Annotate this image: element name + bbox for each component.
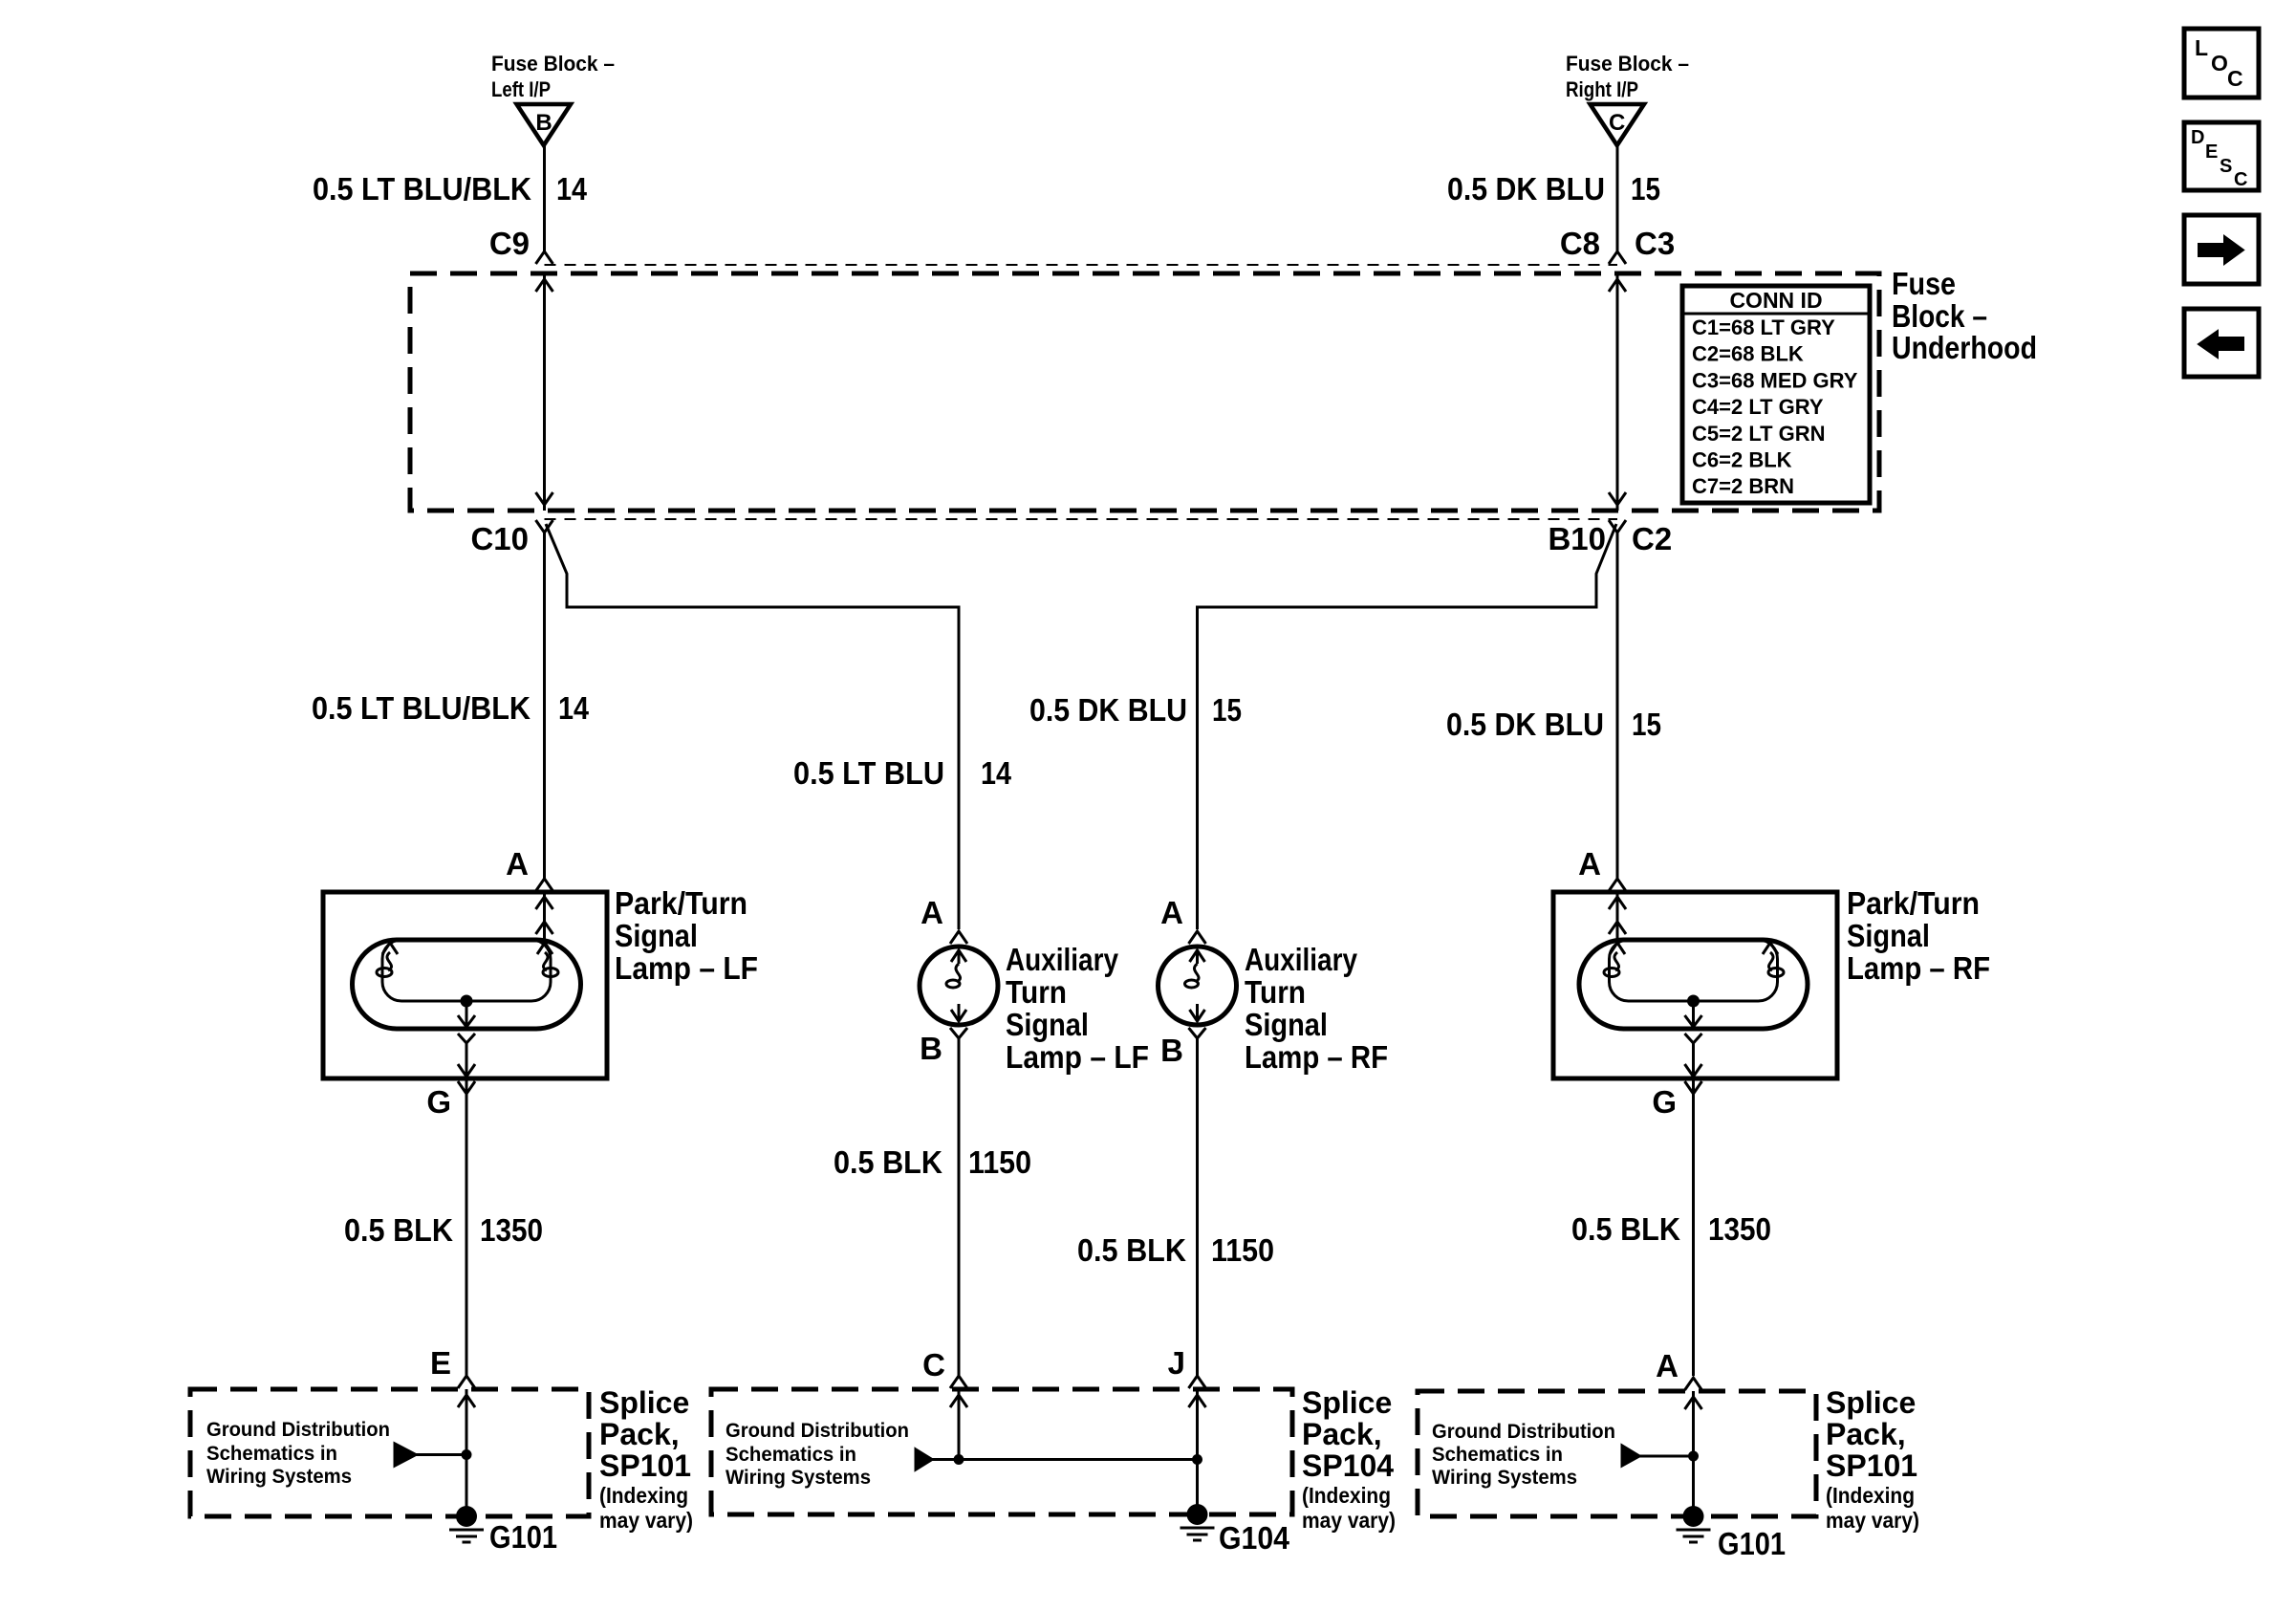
DESC button (2184, 122, 2259, 190)
label Park/Turn Signal Lamp - LF (615, 885, 758, 986)
connector fork at aux RF pin A (1189, 931, 1206, 944)
previous arrow button (2184, 309, 2259, 377)
fuse block underhood dashed box (410, 273, 1879, 511)
label Fuse Block - Underhood (1892, 266, 2037, 365)
connector fork at pin E (458, 1376, 475, 1388)
svg-text:15: 15 (1632, 707, 1661, 742)
svg-text:(Indexing: (Indexing (1302, 1483, 1391, 1508)
wire 0.5 BLK 1350 (RF lamp to SP101) (1692, 1045, 1695, 1376)
svg-text:Splice: Splice (1302, 1385, 1392, 1420)
label 0.5 DK BLU 15 (aux RF wire) (1029, 692, 1242, 728)
svg-text:may vary): may vary) (599, 1508, 693, 1533)
svg-text:SP101: SP101 (599, 1448, 691, 1483)
svg-text:Ground Distribution: Ground Distribution (726, 1420, 909, 1442)
ground G104 (1180, 1504, 1215, 1540)
svg-text:Turn: Turn (1245, 974, 1306, 1010)
label 0.5 BLK 1350 (right) (1571, 1211, 1771, 1247)
label 0.5 DK BLU 15 (right mid) (1446, 707, 1661, 742)
connector fork at aux LF pin A (950, 931, 967, 944)
pin A label (lamp RF) (1578, 846, 1601, 882)
lamp LF internal feed arrows (536, 892, 553, 940)
svg-text:Signal: Signal (1847, 918, 1930, 953)
connector fork at lamp RF pin A (1609, 879, 1626, 891)
connector fork at C8/C3 (1609, 251, 1626, 264)
svg-text:C3=68 MED GRY: C3=68 MED GRY (1692, 368, 1858, 392)
splice pack SP101 dashed box (left) (190, 1389, 589, 1516)
svg-text:A: A (921, 895, 943, 930)
svg-text:Schematics in: Schematics in (726, 1444, 856, 1466)
label G101 (right) (1718, 1526, 1786, 1561)
svg-text:C4=2 LT GRY: C4=2 LT GRY (1692, 395, 1824, 419)
svg-text:B: B (1160, 1033, 1183, 1068)
svg-text:Underhood: Underhood (1892, 330, 2037, 365)
svg-text:Wiring Systems: Wiring Systems (726, 1467, 871, 1489)
svg-text:Pack,: Pack, (1302, 1417, 1382, 1451)
lamp RF ground exit (1685, 1034, 1702, 1078)
svg-text:(Indexing: (Indexing (1826, 1483, 1915, 1508)
pin B label (aux LF) (920, 1031, 942, 1066)
label 0.5 BLK 1350 (left) (344, 1212, 543, 1248)
svg-text:C: C (1609, 110, 1625, 136)
svg-text:A: A (1656, 1348, 1679, 1383)
wire into splice SP104 from C (950, 1389, 967, 1460)
wire C10 to Park/Turn lamp LF (543, 533, 546, 879)
svg-text:SP104: SP104 (1302, 1448, 1394, 1483)
wire B10/C2 to Park/Turn lamp RF (1616, 533, 1619, 879)
svg-text:14: 14 (558, 690, 590, 726)
svg-text:Lamp – LF: Lamp – LF (615, 950, 758, 986)
svg-text:C3: C3 (1635, 226, 1675, 261)
svg-text:A: A (506, 846, 529, 882)
pin E label (430, 1345, 451, 1381)
thin dashed connector line (bottom, C10 to B10/C2) (545, 518, 1618, 520)
svg-text:C2=68 BLK: C2=68 BLK (1692, 342, 1804, 366)
svg-text:Schematics in: Schematics in (206, 1443, 337, 1465)
pin B label (aux RF) (1160, 1033, 1183, 1068)
splice junction dot (left) (462, 1449, 472, 1460)
svg-text:S: S (2220, 156, 2232, 177)
svg-text:J: J (1168, 1345, 1185, 1381)
svg-text:Park/Turn: Park/Turn (615, 885, 747, 921)
svg-text:Turn: Turn (1006, 974, 1067, 1010)
svg-text:G: G (426, 1084, 451, 1120)
svg-text:Lamp – RF: Lamp – RF (1847, 950, 1990, 986)
wire 0.5 BLK 1350 (LF lamp to SP101) (466, 1045, 468, 1376)
connector fork below lamp RF (1685, 1081, 1702, 1094)
svg-text:A: A (1160, 895, 1183, 930)
label Fuse Block - Left I/P (491, 52, 615, 101)
reference arrow to splice (left) (395, 1444, 466, 1466)
connector fork below aux LF (950, 1028, 967, 1038)
connector C9 label (489, 226, 530, 261)
park/turn signal lamp LF box (323, 892, 607, 1078)
pin C label (922, 1347, 945, 1382)
dual filament bulb LF (353, 940, 581, 1029)
connector fork at B10/C2 (1609, 520, 1626, 533)
svg-text:14: 14 (556, 171, 588, 207)
svg-text:0.5 DK BLU: 0.5 DK BLU (1446, 707, 1604, 742)
splice junction dots (middle) (954, 1454, 1203, 1465)
reference arrow to splice (middle) (916, 1449, 1198, 1469)
svg-text:D: D (2191, 127, 2204, 148)
svg-text:C10: C10 (470, 521, 529, 556)
svg-text:C6=2 BLK: C6=2 BLK (1692, 448, 1792, 472)
connector fork at pin C (950, 1376, 967, 1388)
connector fork at lamp LF pin A (536, 879, 553, 891)
connector fork at C9 (536, 251, 553, 264)
svg-text:Ground Distribution: Ground Distribution (206, 1419, 390, 1441)
svg-text:C2: C2 (1632, 521, 1672, 556)
svg-text:C5=2 LT GRN: C5=2 LT GRN (1692, 422, 1826, 446)
svg-text:G101: G101 (489, 1519, 557, 1555)
splice junction dot (right) (1688, 1451, 1699, 1462)
svg-text:Lamp – RF: Lamp – RF (1245, 1039, 1388, 1075)
svg-text:0.5 BLK: 0.5 BLK (834, 1144, 942, 1180)
pin A label (splice right) (1656, 1348, 1679, 1383)
svg-text:B: B (920, 1031, 942, 1066)
wire through fuse block (left) (536, 273, 553, 511)
svg-text:0.5 LT BLU/BLK: 0.5 LT BLU/BLK (313, 171, 531, 207)
svg-text:SP101: SP101 (1826, 1448, 1917, 1483)
connector fork at C10 (536, 520, 553, 533)
wire branch C2 to auxiliary lamp RF (1198, 524, 1617, 929)
svg-text:Fuse Block –: Fuse Block – (491, 52, 615, 76)
svg-text:Lamp – LF: Lamp – LF (1006, 1039, 1149, 1075)
svg-text:0.5 BLK: 0.5 BLK (1571, 1211, 1680, 1247)
thin dashed connector line (top, C9 to C8/C3) (545, 264, 1618, 266)
label 0.5 BLK 1150 (aux RF) (1077, 1232, 1274, 1268)
svg-text:Left I/P: Left I/P (491, 77, 551, 101)
ground distribution note (right) (1432, 1421, 1615, 1489)
reference arrow to splice (right) (1622, 1446, 1694, 1466)
label 0.5 LT BLU 14 (aux LF wire) (793, 755, 1012, 791)
connector fork below lamp LF (458, 1081, 475, 1094)
svg-text:G: G (1652, 1084, 1677, 1120)
svg-text:1150: 1150 (1211, 1232, 1274, 1268)
svg-text:L: L (2195, 35, 2208, 60)
wire 0.5 BLK 1150 (aux RF to SP104) (1196, 1038, 1199, 1376)
pin G label (lamp RF) (1652, 1084, 1677, 1120)
svg-text:0.5 BLK: 0.5 BLK (1077, 1232, 1186, 1268)
svg-text:0.5 DK BLU: 0.5 DK BLU (1447, 171, 1605, 207)
wire into splice SP101 (458, 1389, 475, 1516)
svg-text:(Indexing: (Indexing (599, 1483, 688, 1508)
off-page connector B (Fuse Block - Left I/P) (517, 104, 572, 145)
connector fork at splice pin A (1685, 1378, 1702, 1390)
svg-text:Fuse Block –: Fuse Block – (1566, 52, 1689, 76)
label 0.5 LT BLU/BLK 14 (left mid) (312, 690, 590, 726)
wire into splice SP101 right (1685, 1391, 1702, 1516)
splice pack SP101 dashed box (right) (1418, 1391, 1816, 1516)
svg-text:Pack,: Pack, (599, 1417, 680, 1451)
svg-text:Pack,: Pack, (1826, 1417, 1906, 1451)
svg-text:Block –: Block – (1892, 298, 1987, 334)
svg-text:Schematics in: Schematics in (1432, 1444, 1563, 1466)
svg-text:G104: G104 (1219, 1520, 1290, 1556)
svg-text:B: B (535, 110, 552, 136)
svg-text:Signal: Signal (1245, 1007, 1328, 1042)
pin A label (aux RF) (1160, 895, 1183, 930)
label 0.5 BLK 1150 (aux LF) (834, 1144, 1031, 1180)
auxiliary turn signal lamp RF bulb (1159, 947, 1237, 1025)
pin J label (1168, 1345, 1185, 1381)
label Splice Pack SP101 (left) (599, 1385, 693, 1533)
svg-text:Wiring Systems: Wiring Systems (1432, 1467, 1577, 1489)
svg-text:0.5 DK BLU: 0.5 DK BLU (1029, 692, 1187, 728)
pin G label (lamp LF) (426, 1084, 451, 1120)
svg-text:0.5 LT BLU/BLK: 0.5 LT BLU/BLK (312, 690, 531, 726)
svg-text:15: 15 (1631, 171, 1660, 207)
svg-text:C7=2 BRN: C7=2 BRN (1692, 474, 1794, 498)
off-page connector C (Fuse Block - Right I/P) (1591, 104, 1645, 145)
wire branch C10 to auxiliary lamp LF (546, 524, 959, 929)
lamp RF internal feed arrows (1609, 892, 1626, 940)
label Park/Turn Signal Lamp - RF (1847, 885, 1990, 986)
svg-text:1350: 1350 (480, 1212, 543, 1248)
svg-text:CONN ID: CONN ID (1729, 288, 1822, 313)
auxiliary turn signal lamp LF bulb (920, 947, 998, 1025)
svg-text:Ground Distribution: Ground Distribution (1432, 1421, 1615, 1443)
pin A label (aux LF) (921, 895, 943, 930)
svg-text:Auxiliary: Auxiliary (1245, 942, 1358, 977)
svg-text:C: C (2227, 66, 2243, 91)
lamp LF ground exit (458, 1034, 475, 1078)
connector B10 label (1548, 521, 1606, 556)
svg-text:C: C (2234, 169, 2247, 190)
park/turn signal lamp RF box (1553, 892, 1837, 1078)
svg-text:Splice: Splice (1826, 1385, 1916, 1420)
label Fuse Block - Right I/P (1566, 52, 1689, 101)
label 0.5 DK BLU 15 (top right) (1447, 171, 1660, 207)
svg-text:Right I/P: Right I/P (1566, 77, 1638, 101)
LOC button (2184, 29, 2259, 98)
connector fork at pin J (1189, 1376, 1206, 1388)
svg-text:C: C (922, 1347, 945, 1382)
connector C8 label (1560, 226, 1600, 261)
svg-text:E: E (430, 1345, 451, 1381)
svg-text:15: 15 (1212, 692, 1242, 728)
svg-text:may vary): may vary) (1826, 1508, 1919, 1533)
svg-text:B10: B10 (1548, 521, 1606, 556)
svg-text:0.5 LT BLU: 0.5 LT BLU (793, 755, 944, 791)
wire into splice SP104 from J (1189, 1389, 1206, 1516)
svg-text:Signal: Signal (615, 918, 698, 953)
svg-text:G101: G101 (1718, 1526, 1786, 1561)
svg-text:Fuse: Fuse (1892, 266, 1956, 301)
ground distribution note (middle) (726, 1420, 909, 1489)
next arrow button (2184, 215, 2259, 284)
ground distribution note (left) (206, 1419, 390, 1488)
svg-text:Splice: Splice (599, 1385, 689, 1420)
svg-text:0.5 BLK: 0.5 BLK (344, 1212, 453, 1248)
wire 0.5 BLK 1150 (aux LF to SP104) (958, 1038, 961, 1376)
label Splice Pack SP104 (1302, 1385, 1396, 1533)
svg-text:C1=68 LT GRY: C1=68 LT GRY (1692, 316, 1835, 339)
svg-text:Wiring Systems: Wiring Systems (206, 1466, 352, 1488)
svg-text:Auxiliary: Auxiliary (1006, 942, 1119, 977)
svg-text:A: A (1578, 846, 1601, 882)
label Auxiliary Turn Signal Lamp - LF (1006, 942, 1149, 1075)
svg-text:Signal: Signal (1006, 1007, 1089, 1042)
dual filament bulb RF (1579, 940, 1808, 1029)
label G101 (left) (489, 1519, 557, 1555)
svg-text:Park/Turn: Park/Turn (1847, 885, 1980, 921)
label 0.5 LT BLU/BLK 14 (top left) (313, 171, 588, 207)
connector C3 label (1635, 226, 1675, 261)
wire 0.5 DK BLU circuit 15 (fuse block right to C8) (1616, 143, 1619, 251)
connector fork below aux RF (1189, 1028, 1206, 1038)
svg-text:may vary): may vary) (1302, 1508, 1396, 1533)
wire through fuse block (right) (1609, 273, 1626, 511)
connector C2 label (1632, 521, 1672, 556)
svg-text:C8: C8 (1560, 226, 1600, 261)
label Auxiliary Turn Signal Lamp - RF (1245, 942, 1388, 1075)
label G104 (1219, 1520, 1290, 1556)
label Splice Pack SP101 (right) (1826, 1385, 1919, 1533)
svg-text:1350: 1350 (1708, 1211, 1771, 1247)
splice pack SP104 dashed box (middle) (711, 1389, 1292, 1514)
svg-text:1150: 1150 (968, 1144, 1031, 1180)
connector C10 label (470, 521, 529, 556)
svg-text:O: O (2211, 51, 2228, 76)
svg-text:E: E (2205, 142, 2218, 163)
CONN ID table (1682, 286, 1870, 503)
wire 0.5 LT BLU/BLK circuit 14 (fuse block left to C9) (543, 143, 546, 251)
svg-text:C9: C9 (489, 226, 530, 261)
svg-text:14: 14 (981, 755, 1012, 791)
ground G101 (right) (1677, 1506, 1711, 1542)
pin A label (lamp LF) (506, 846, 529, 882)
ground G101 (left) (449, 1506, 484, 1542)
